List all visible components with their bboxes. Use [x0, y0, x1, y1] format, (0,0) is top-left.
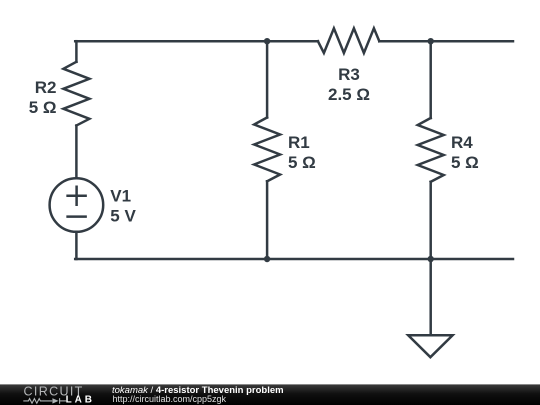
svg-text:5 Ω: 5 Ω — [451, 153, 479, 172]
ground — [408, 335, 452, 357]
wire middle branch top — [266, 41, 269, 117]
wire V1 to bottom rail — [75, 232, 78, 259]
wire bottom rail — [75, 258, 513, 261]
svg-text:2.5 Ω: 2.5 Ω — [328, 85, 370, 104]
node A top-middle junction — [264, 38, 270, 44]
svg-text:5 Ω: 5 Ω — [288, 153, 316, 172]
svg-text:R3: R3 — [338, 65, 360, 84]
wire top rail — [75, 40, 513, 43]
resistor R2 — [63, 62, 89, 126]
node B top-right junction — [428, 38, 434, 44]
wire R2 to V1 — [75, 126, 78, 179]
voltage source V1 — [50, 178, 104, 232]
wire left branch top — [75, 41, 78, 62]
svg-text:LAB: LAB — [66, 395, 95, 405]
node D bottom-right junction — [428, 256, 434, 262]
node C bottom-middle junction — [264, 256, 270, 262]
svg-text:R1: R1 — [288, 133, 310, 152]
wire R4 to bottom rail — [429, 182, 432, 259]
logo resistor-diode symbol — [23, 398, 66, 404]
svg-text:R2: R2 — [35, 78, 57, 97]
svg-text:V1: V1 — [110, 187, 131, 206]
wire right branch top — [429, 41, 432, 118]
svg-text:R4: R4 — [451, 133, 473, 152]
resistor R3 — [318, 28, 379, 53]
svg-text:http://circuitlab.com/cpp5zgk: http://circuitlab.com/cpp5zgk — [113, 394, 227, 404]
resistor R1 — [254, 118, 280, 182]
wire bottom rail to ground — [429, 259, 432, 335]
svg-text:5 V: 5 V — [110, 207, 136, 226]
wire R1 to bottom rail — [266, 181, 269, 259]
resistor R4 — [418, 118, 444, 182]
svg-text:5 Ω: 5 Ω — [29, 98, 57, 117]
